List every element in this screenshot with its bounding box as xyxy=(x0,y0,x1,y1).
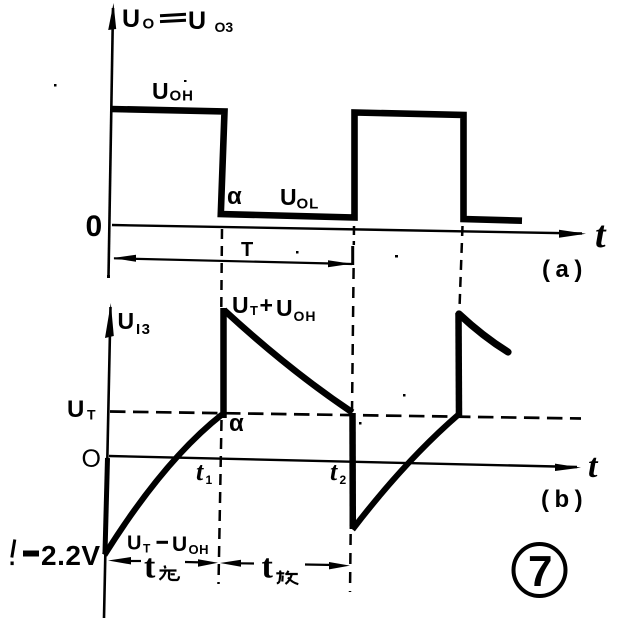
dimension line T with arrows xyxy=(114,258,352,264)
svg-text:(b): (b) xyxy=(541,486,588,513)
axis label U_I3 xyxy=(118,308,152,338)
svg-text:t: t xyxy=(588,448,599,485)
waveform: drop at t2 xyxy=(349,413,356,529)
waveform: initial drop on axis xyxy=(105,458,108,553)
waveform: jump at second rise xyxy=(455,313,462,417)
label U_OL xyxy=(280,184,319,213)
svg-text:OH: OH xyxy=(170,88,195,105)
dimension arrows t_discharge xyxy=(220,560,241,567)
svg-text:U: U xyxy=(67,396,84,423)
svg-text:T: T xyxy=(250,303,258,318)
dashed connector second fall to second peak xyxy=(460,226,463,308)
svg-text:t: t xyxy=(595,214,607,256)
svg-text:U: U xyxy=(118,308,135,334)
threshold dashed line U_T xyxy=(110,412,581,419)
svg-text:α: α xyxy=(227,183,242,210)
label t2 xyxy=(330,457,347,487)
svg-text:U: U xyxy=(280,184,297,210)
svg-text:U: U xyxy=(276,295,293,321)
svg-text:OH: OH xyxy=(189,542,210,557)
stray specks xyxy=(54,80,406,425)
svg-text:+: + xyxy=(260,292,273,318)
label U_T + U_OH xyxy=(232,292,317,324)
label -2.2V xyxy=(11,540,101,572)
svg-text:U: U xyxy=(232,292,249,318)
svg-text:2.2V: 2.2V xyxy=(41,540,101,571)
svg-text:O3: O3 xyxy=(215,19,234,35)
svg-text:t: t xyxy=(196,457,204,486)
dashed line at t1 through plot b xyxy=(219,420,222,584)
svg-text:U: U xyxy=(122,5,140,33)
svg-text:T: T xyxy=(241,239,253,261)
axis U_O vertical (plot a) xyxy=(109,8,114,277)
axis U_I3 vertical (plot b) xyxy=(104,307,111,618)
figure number 7 circled xyxy=(514,544,566,596)
svg-text:7: 7 xyxy=(528,547,552,596)
label U_T - U_OH xyxy=(127,533,209,558)
svg-text:OL: OL xyxy=(297,196,320,213)
svg-text:1: 1 xyxy=(206,473,213,487)
dimension arrows t_charge xyxy=(108,557,131,565)
dashed line at t1 below plot a xyxy=(220,229,223,307)
svg-text:t: t xyxy=(262,549,274,586)
svg-text:O: O xyxy=(143,16,155,33)
svg-text:OH: OH xyxy=(294,308,317,324)
svg-text:U: U xyxy=(188,7,206,35)
svg-text:α: α xyxy=(229,410,244,437)
dashed line at t2 below plot a xyxy=(353,226,356,245)
waveform: jump at t1 xyxy=(220,308,227,418)
svg-text:t: t xyxy=(144,549,156,586)
waveform: charge curve 1 xyxy=(105,415,223,556)
svg-text:I3: I3 xyxy=(136,321,152,338)
axis t horizontal (plot a) xyxy=(112,225,582,234)
waveform: decay curve 2 xyxy=(459,314,508,352)
label U_OH xyxy=(152,78,194,105)
svg-text:t: t xyxy=(330,457,338,486)
waveform: charge curve 2 xyxy=(353,415,459,530)
axis label U_O = U_O3 xyxy=(122,5,233,35)
waveform U_O square wave xyxy=(111,109,522,221)
svg-text:U: U xyxy=(127,533,141,555)
waveform: decay curve 1 xyxy=(224,310,353,413)
axis t horizontal (plot b) xyxy=(109,456,577,467)
svg-text:(a): (a) xyxy=(542,256,588,283)
label U_T xyxy=(67,396,96,423)
svg-text:O: O xyxy=(82,445,101,473)
svg-text:2: 2 xyxy=(340,473,347,487)
svg-text:U: U xyxy=(172,533,187,556)
svg-text:U: U xyxy=(152,78,169,104)
svg-text:0: 0 xyxy=(86,210,103,243)
label t1 xyxy=(196,457,213,487)
svg-text:T: T xyxy=(87,407,96,423)
